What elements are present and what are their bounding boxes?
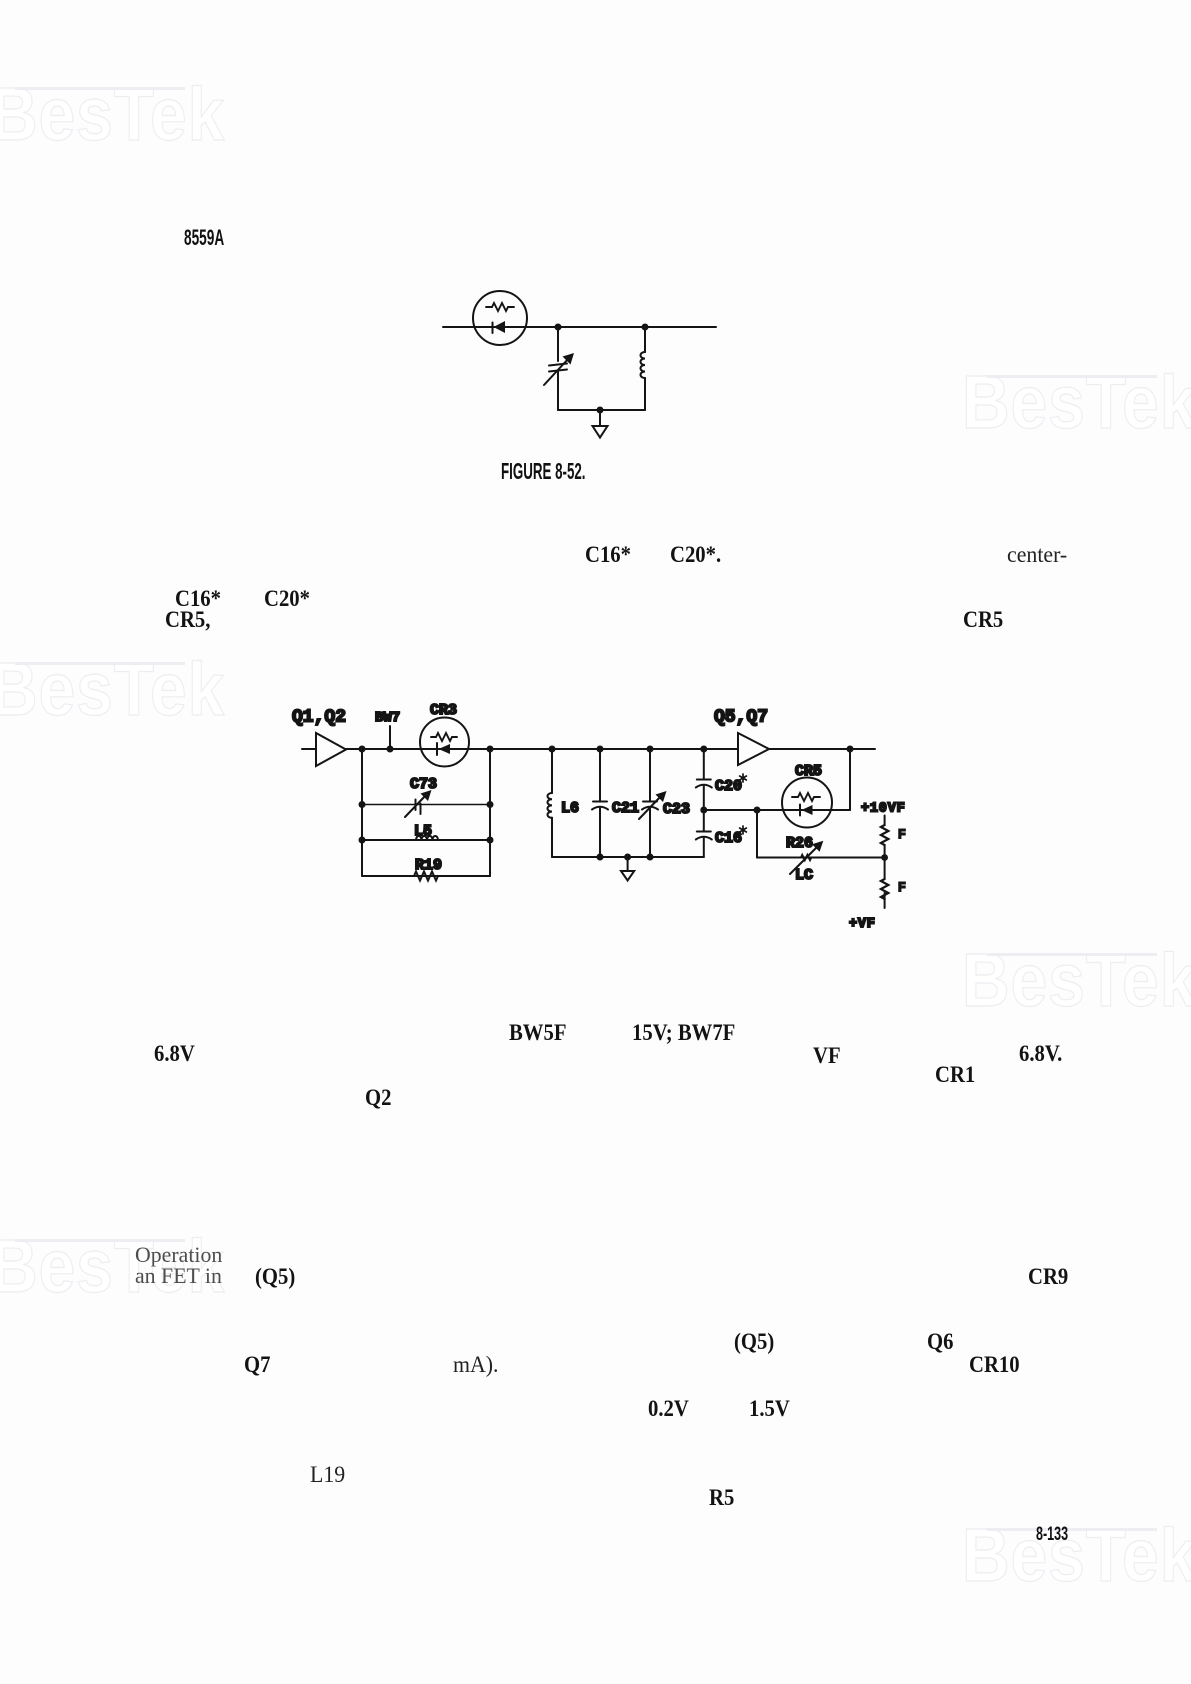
resistor R upper [881, 825, 888, 845]
svg-text:L5: L5 [414, 823, 432, 840]
capacitor C23 arrow [639, 795, 662, 819]
node C23 top [647, 746, 654, 753]
svg-text:L6: L6 [561, 800, 579, 817]
body scattered serif words [585, 543, 631, 566]
wire inductor branch lower [644, 378, 646, 410]
wire bottom rail [558, 409, 645, 411]
ground [599, 410, 601, 426]
svg-text:LC: LC [795, 867, 813, 884]
svg-text:BW7: BW7 [375, 710, 400, 726]
svg-text:Q1,Q2: Q1,Q2 [292, 708, 346, 728]
node L6 top [549, 746, 556, 753]
svg-text:F: F [898, 827, 906, 842]
node C21 top [597, 746, 604, 753]
wire L6 branch bottom [551, 818, 553, 857]
wire left tank left vertical [361, 749, 363, 876]
node A [555, 324, 562, 331]
wire CR5 row [704, 809, 850, 811]
node rail ground [624, 854, 631, 861]
wire R19 row [362, 875, 490, 877]
resistor inside CR5 [792, 793, 820, 801]
watermark row 5 left [0, 1223, 225, 1309]
wire inductor branch upper [644, 327, 646, 352]
node rail C21 [597, 854, 604, 861]
wire R26 row [757, 857, 885, 859]
op-amp Q1,Q2 buffer triangle [316, 733, 346, 766]
wire left tank right vertical [489, 749, 491, 876]
wire below node [884, 858, 886, 880]
diode inside circle [492, 323, 494, 334]
resistor inside circle [486, 303, 514, 311]
ground middle [627, 857, 629, 871]
wire variable-capacitor branch lower [557, 372, 559, 410]
wire C23 branch top [649, 749, 651, 802]
node B [642, 324, 649, 331]
node divider [881, 854, 888, 861]
watermark row 3 left [0, 646, 225, 732]
wire C23 branch bottom [649, 808, 651, 858]
node R26 tap [754, 807, 761, 814]
watermark row 4 right [962, 937, 1191, 1023]
wire C20 branch top [703, 749, 705, 780]
node C73 left [359, 801, 366, 808]
svg-text:R19: R19 [415, 857, 442, 874]
capacitor C20 [697, 779, 711, 781]
page number [1036, 1525, 1068, 1544]
svg-text:+10VF: +10VF [861, 802, 906, 817]
svg-text:C20: C20 [715, 778, 742, 795]
wire R26 vertical [756, 810, 758, 858]
svg-text:R26: R26 [786, 835, 813, 852]
watermark row 6 right [962, 1512, 1191, 1598]
watermark row 1 left [0, 71, 225, 157]
wire L5 row [362, 839, 490, 841]
inductor L6 coil [547, 793, 552, 818]
capacitor C73 arrow [405, 794, 427, 817]
op-amp Q5,Q7 buffer triangle [738, 733, 769, 765]
node BW7 [387, 746, 394, 753]
node rail C23 [647, 854, 654, 861]
capacitor C73 variable plates [415, 800, 417, 811]
svg-text:CR5: CR5 [795, 763, 822, 780]
resistor R26 arrow [790, 846, 818, 874]
svg-text:C73: C73 [410, 776, 437, 793]
resistor R26 zigzag [801, 855, 811, 860]
capacitor C16 [697, 831, 711, 833]
resistor R lower [881, 879, 888, 899]
wire main horizontal [443, 326, 716, 328]
variable capacitor arrow [544, 358, 569, 385]
wire C16 branch bottom [703, 838, 705, 858]
svg-text:C16: C16 [715, 830, 742, 847]
wire C73 row [362, 804, 490, 806]
node output [847, 746, 854, 753]
svg-text:+VF: +VF [849, 917, 876, 932]
svg-text:C21: C21 [612, 800, 639, 817]
capacitor C23 variable [643, 801, 657, 803]
wire L6 branch top [551, 749, 553, 793]
PIN diode attenuator module (circled resistor+diode) [473, 291, 527, 345]
wire C21 branch top [599, 749, 601, 802]
diode CR5 [799, 805, 801, 816]
node L5 right [487, 837, 494, 844]
wire +10VF feed [884, 816, 886, 826]
svg-text:CR3: CR3 [430, 702, 457, 719]
svg-text:Q5,Q7: Q5,Q7 [714, 708, 768, 728]
inductor coil [641, 352, 646, 378]
variable capacitor plates [549, 364, 567, 366]
wire output vertical [849, 749, 851, 810]
figure caption [501, 460, 586, 483]
diode module CR3 circle [420, 718, 469, 767]
node after Q1 [359, 746, 366, 753]
wire C21 branch bottom [599, 808, 601, 858]
node C20-C16 junction [700, 807, 707, 814]
node after CR3 [487, 746, 494, 753]
header model number [184, 227, 224, 249]
node C (ground junction) [597, 407, 604, 414]
diode CR3 [436, 743, 438, 755]
capacitor C21 [593, 801, 607, 803]
wire +VF tail [884, 893, 886, 908]
wire middle bottom rail [552, 856, 704, 858]
node C73 right [487, 801, 494, 808]
diode module CR5 circle [782, 778, 832, 828]
svg-text:F: F [898, 880, 906, 895]
wire variable-capacitor branch upper [557, 327, 559, 361]
resistor R19 [414, 872, 438, 881]
wire BW7 stub [389, 726, 391, 749]
watermark row 2 right [962, 359, 1191, 445]
node C20 top [700, 746, 707, 753]
svg-text:C23: C23 [663, 801, 690, 818]
node L5 left [359, 837, 366, 844]
resistor inside CR3 [431, 733, 457, 741]
inductor L5 coil [416, 836, 438, 840]
wire C20-C16 link [703, 786, 705, 832]
wire to node [884, 845, 886, 858]
wire main line [302, 748, 875, 750]
